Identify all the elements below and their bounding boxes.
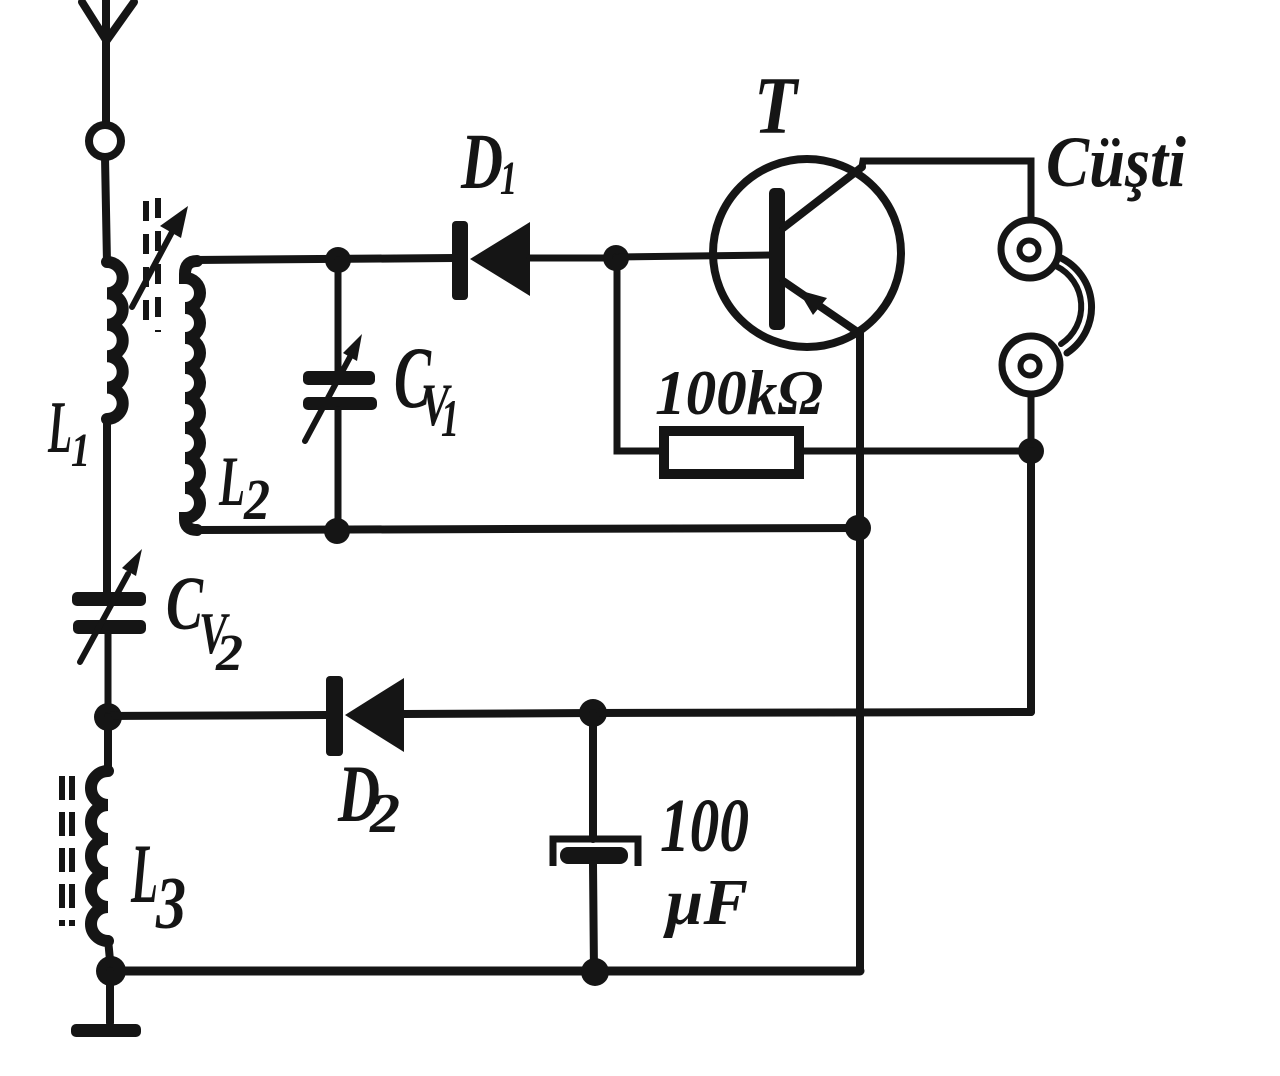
- wire CV2 node to D2: [108, 715, 326, 716]
- wire antenna to L1: [105, 157, 107, 263]
- capacitor CV2: [72, 549, 146, 717]
- inductor L1: [107, 262, 123, 419]
- capacitor CV1: [303, 260, 377, 531]
- wire collector to phones: [862, 161, 1031, 220]
- antenna: [82, 0, 134, 125]
- diode D1: [452, 221, 530, 300]
- svg-text:2: 2: [215, 625, 243, 682]
- transistor T: [713, 159, 901, 347]
- label L1: [47, 387, 90, 477]
- label L2: [218, 443, 270, 532]
- svg-text:L: L: [47, 387, 72, 469]
- node D1/base: [603, 245, 629, 271]
- wire resistor to phones node: [804, 448, 1031, 455]
- svg-text:L: L: [130, 827, 158, 921]
- wire L1 to CV2: [103, 419, 111, 593]
- wire cap node to right riser: [593, 712, 1031, 713]
- svg-text:1: 1: [500, 152, 517, 205]
- label D1: [460, 119, 517, 206]
- svg-text:1: 1: [441, 390, 459, 448]
- label Cüşti: [1046, 122, 1186, 202]
- inductor L3: [91, 771, 108, 941]
- svg-text:Cüşti: Cüşti: [1046, 122, 1186, 202]
- node L3/bottom rail: [96, 956, 126, 986]
- ground: [71, 1024, 141, 1037]
- capacitor 100uF: [553, 713, 638, 973]
- svg-text:1: 1: [71, 424, 90, 477]
- wire L2 top to D1: [195, 258, 454, 260]
- label T: [754, 60, 799, 151]
- wire base node down to resistor: [617, 258, 660, 451]
- label 100kOhm: [655, 358, 823, 428]
- node D2/C100: [579, 699, 607, 727]
- node C100 bottom: [581, 958, 609, 986]
- node CV1 bottom: [324, 518, 350, 544]
- wire node to ground: [106, 971, 114, 1023]
- coupling arrow: [132, 206, 188, 307]
- wire base: [616, 255, 771, 257]
- label CV1: [394, 330, 459, 448]
- svg-text:2: 2: [369, 783, 400, 845]
- node CV2/D2: [94, 703, 122, 731]
- label L3: [130, 827, 186, 945]
- wire L3 to bottom node: [108, 939, 111, 971]
- svg-text:100kΩ: 100kΩ: [655, 358, 823, 428]
- label D2: [337, 748, 400, 845]
- label CV2: [166, 562, 243, 682]
- svg-text:T: T: [754, 60, 799, 151]
- wire CV2 node to L3: [104, 717, 112, 771]
- node emitter / L2 bottom: [845, 515, 871, 541]
- svg-text:100: 100: [660, 784, 749, 868]
- headphones: [1001, 220, 1092, 451]
- svg-text:D: D: [460, 119, 503, 206]
- bottom rail wire: [111, 967, 860, 976]
- wire right riser down: [1027, 451, 1035, 712]
- node phones/resistor: [1018, 438, 1044, 464]
- antenna terminal circle: [89, 125, 121, 157]
- label 100uF: [660, 784, 749, 939]
- svg-text:µF: µF: [663, 866, 748, 939]
- svg-text:2: 2: [243, 467, 270, 532]
- node L2top/CV1: [325, 247, 351, 273]
- wire D2 to cap node: [404, 713, 593, 714]
- core dashed line L3: [62, 776, 72, 926]
- svg-text:3: 3: [155, 863, 186, 945]
- diode D2: [326, 676, 404, 756]
- wire emitter down: [856, 333, 864, 971]
- inductor L2: [185, 261, 200, 530]
- svg-text:L: L: [218, 443, 245, 521]
- core dashed lines between L1 and L2: [146, 198, 158, 332]
- resistor 100k: [664, 431, 799, 474]
- wire L2 bottom: [195, 528, 858, 530]
- wire D1 to base node: [530, 255, 616, 262]
